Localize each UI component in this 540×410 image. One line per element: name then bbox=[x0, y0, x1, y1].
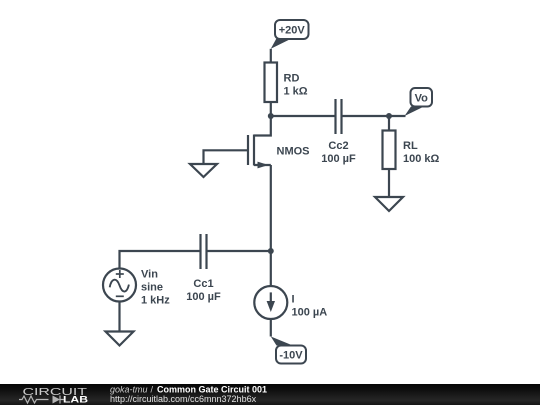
svg-text:I: I bbox=[292, 294, 295, 306]
svg-text:RD: RD bbox=[284, 73, 300, 85]
wire node S to current source bbox=[270, 251, 272, 286]
power flag +20V bbox=[275, 20, 309, 39]
CircuitLab logo wordmark bbox=[23, 386, 89, 406]
wire node Vo to RL bbox=[388, 116, 390, 131]
current source arrow shaft bbox=[270, 292, 272, 309]
wire node S to Cc1 right plate bbox=[207, 250, 271, 252]
current source arrow head bbox=[267, 301, 275, 312]
svg-text:NMOS: NMOS bbox=[277, 146, 310, 158]
wire NMOS gate lead bbox=[204, 150, 249, 164]
wire node D to NMOS drain bbox=[254, 116, 271, 136]
svg-text:LAB: LAB bbox=[63, 395, 88, 406]
wire Vin to ground bbox=[118, 302, 120, 332]
power flag -10V bbox=[276, 346, 306, 364]
svg-text:-10V: -10V bbox=[279, 350, 303, 362]
wire Cc2 to node Vo bbox=[342, 115, 390, 117]
wire RD to node D bbox=[270, 102, 272, 116]
wire current source to -10V flag bbox=[270, 319, 272, 337]
svg-text:sine: sine bbox=[141, 282, 163, 294]
wire node Vo to Vo flag bbox=[389, 115, 406, 117]
svg-text:+20V: +20V bbox=[279, 25, 306, 37]
wire RL to ground bbox=[388, 169, 390, 197]
svg-text:100 µF: 100 µF bbox=[321, 153, 356, 165]
Vin plus sign bbox=[116, 270, 124, 278]
resistor RL bbox=[383, 131, 396, 170]
wire node D to Cc2 bbox=[271, 115, 336, 117]
node S junction dot bbox=[268, 248, 274, 254]
svg-text:Vo: Vo bbox=[415, 93, 429, 105]
net flag Vo bbox=[411, 88, 433, 107]
svg-text:http://circuitlab.com/cc6mnn37: http://circuitlab.com/cc6mnn372hb6x bbox=[110, 394, 257, 404]
ground (below RL) bbox=[375, 197, 403, 211]
svg-text:100 µF: 100 µF bbox=[186, 291, 221, 303]
svg-text:goka-tmu: goka-tmu bbox=[110, 385, 148, 395]
NMOS source arrow bbox=[258, 162, 269, 169]
Vin sine squiggle bbox=[110, 280, 129, 292]
svg-text:/: / bbox=[151, 385, 154, 395]
svg-text:Cc2: Cc2 bbox=[328, 140, 348, 152]
wire Cc1 to Vin bbox=[120, 251, 201, 269]
-10V flag pointer bbox=[271, 337, 293, 346]
capacitor Cc2 bbox=[336, 99, 342, 134]
svg-text:1 kHz: 1 kHz bbox=[141, 295, 170, 307]
svg-text:Cc1: Cc1 bbox=[193, 278, 213, 290]
svg-text:Common Gate Circuit 001: Common Gate Circuit 001 bbox=[157, 385, 267, 395]
svg-text:100 kΩ: 100 kΩ bbox=[403, 153, 440, 165]
ground (gate) bbox=[190, 164, 217, 177]
ground (below Vin) bbox=[106, 332, 134, 346]
transistor NMOS M1 bbox=[248, 135, 271, 166]
node D junction dot bbox=[268, 113, 274, 119]
voltage source Vin bbox=[103, 269, 136, 302]
current source I1 bbox=[254, 286, 287, 319]
capacitor Cc1 bbox=[201, 234, 207, 269]
svg-text:Vin: Vin bbox=[141, 269, 158, 281]
svg-text:RL: RL bbox=[403, 140, 418, 152]
svg-text:100 µA: 100 µA bbox=[292, 307, 328, 319]
wire +20V to RD bbox=[270, 49, 272, 63]
svg-text:1 kΩ: 1 kΩ bbox=[284, 86, 308, 98]
+20V flag pointer bbox=[271, 39, 292, 49]
Vo flag pointer bbox=[405, 107, 425, 117]
footer bar bbox=[0, 384, 540, 405]
node Vo junction dot bbox=[386, 113, 392, 119]
CircuitLab logo resistor-diode squiggle bbox=[19, 396, 64, 404]
Vin minus sign bbox=[116, 295, 124, 297]
resistor RD bbox=[265, 63, 278, 103]
wire NMOS source down to node S bbox=[270, 165, 272, 251]
footer credits text bbox=[110, 385, 267, 405]
